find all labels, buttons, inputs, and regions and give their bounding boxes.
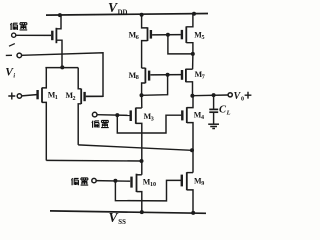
- label VDD: [108, 0, 128, 16]
- minus mark of inverting input: [9, 44, 15, 47]
- transistor M1: [38, 68, 47, 161]
- terminal bias3: [92, 178, 96, 182]
- label bias2 (偏置): [92, 120, 109, 127]
- svg-text:i: i: [13, 72, 15, 79]
- wire shared gate M8-M7: [150, 74, 181, 76]
- wire M2 drain to M4/M9 drain node: [78, 145, 191, 150]
- label M8: [129, 71, 139, 81]
- junction dot tail node: [60, 65, 64, 69]
- label bias1 (偏置): [10, 23, 27, 30]
- junction dot M6/M5 gate tie: [166, 33, 170, 37]
- wire M4 drain to M9 drain: [192, 150, 194, 172]
- wire bias3 to gate of M10: [96, 180, 130, 183]
- junction dot VSS / M10 source: [140, 210, 144, 214]
- plus mark of noninverting input: [8, 93, 15, 100]
- transistor M4: [182, 96, 193, 151]
- label M1: [48, 90, 58, 101]
- junction dot VSS / M9 source: [191, 211, 195, 215]
- label M4: [194, 110, 204, 120]
- svg-text:6: 6: [136, 35, 139, 41]
- junction dot M8/M7 gate tie: [166, 73, 170, 77]
- svg-text:1: 1: [55, 95, 58, 101]
- wire bias3 feed to gate of M9: [115, 180, 181, 201]
- transistor M8 (mirrored): [142, 68, 150, 96]
- junction dot M8 drain node: [140, 93, 144, 97]
- wire M1 drain to second stage node: [46, 159, 141, 162]
- svg-text:SS: SS: [118, 219, 126, 226]
- svg-text:5: 5: [202, 35, 205, 41]
- transistor M5: [182, 14, 193, 54]
- label M6: [129, 31, 139, 41]
- label M5: [194, 30, 204, 40]
- junction dot bias2: [115, 113, 119, 117]
- transistor M7: [182, 69, 193, 96]
- transistor M10: [132, 174, 142, 213]
- wire inverting input to gate of M2: [22, 53, 103, 97]
- wire M8 drain down to M3 drain: [141, 95, 143, 108]
- junction dot VDD / M5 source: [192, 12, 196, 16]
- svg-text:7: 7: [202, 75, 205, 81]
- junction dot CL tap: [212, 93, 216, 97]
- label M9: [194, 176, 204, 186]
- wire source coupling bar of differential pair: [45, 67, 78, 69]
- label Vi: [5, 67, 15, 80]
- label M2: [66, 91, 76, 102]
- svg-text:L: L: [226, 109, 231, 116]
- svg-text:DD: DD: [118, 9, 128, 16]
- terminal Vo: [228, 93, 232, 97]
- svg-text:2: 2: [73, 96, 76, 102]
- wire bias2 to gate of M3: [97, 114, 129, 117]
- junction dot VDD / M6: [140, 13, 144, 17]
- terminal inverting input: [17, 53, 22, 58]
- transistor MB1 (tail current source PMOS): [52, 15, 62, 67]
- label M3: [144, 112, 154, 122]
- plus mark at output: [245, 92, 252, 99]
- transistor M6 (mirrored): [142, 15, 151, 68]
- capacitor CL: [209, 95, 218, 124]
- dash before inverting terminal: [6, 54, 12, 56]
- transistor M3: [131, 108, 142, 175]
- wire output node to Vo terminal: [192, 94, 228, 97]
- wire gate tie down to M5 drain node: [168, 35, 193, 54]
- svg-text:9: 9: [201, 181, 204, 187]
- svg-text:3: 3: [151, 116, 154, 122]
- terminal noninverting input: [17, 94, 21, 98]
- power rail VDD: [46, 14, 208, 16]
- label M7: [195, 70, 205, 80]
- ground below CL: [208, 124, 219, 128]
- label VSS: [109, 210, 127, 226]
- junction dot M5 drain / M7 source / gate tie: [191, 52, 195, 56]
- svg-text:0: 0: [241, 96, 244, 102]
- wire M5 drain to M7 source: [192, 54, 194, 69]
- wire shared gate M6-M5: [152, 34, 181, 36]
- wire bias2 feed to gate of M4: [117, 115, 181, 133]
- junction dot bias3: [113, 179, 117, 183]
- svg-text:V: V: [108, 0, 118, 15]
- transistor M2 (mirrored): [78, 68, 103, 145]
- wire M8 drain to gate tie: [142, 75, 168, 96]
- junction dot VDD / MB1 source: [58, 13, 62, 17]
- transistor M9: [182, 172, 193, 213]
- junction dot M1 drain / M3-M10 column: [140, 159, 144, 163]
- power rail VSS: [50, 211, 206, 213]
- svg-text:4: 4: [201, 115, 204, 121]
- label bias3 (偏置): [71, 178, 88, 185]
- wire noninverting input to gate of M1: [22, 95, 37, 96]
- junction dot M4/M9 drain node: [190, 148, 194, 152]
- terminal bias2: [92, 112, 97, 117]
- svg-text:V: V: [109, 210, 119, 225]
- wire bias1 to gate of tail transistor: [16, 34, 51, 36]
- junction dot output node M7/M4: [190, 94, 194, 98]
- label M10: [143, 178, 156, 188]
- label CL: [219, 105, 231, 117]
- svg-text:10: 10: [150, 182, 156, 188]
- svg-text:8: 8: [136, 75, 139, 81]
- label Vo+: [234, 91, 245, 103]
- terminal bias1: [12, 33, 16, 37]
